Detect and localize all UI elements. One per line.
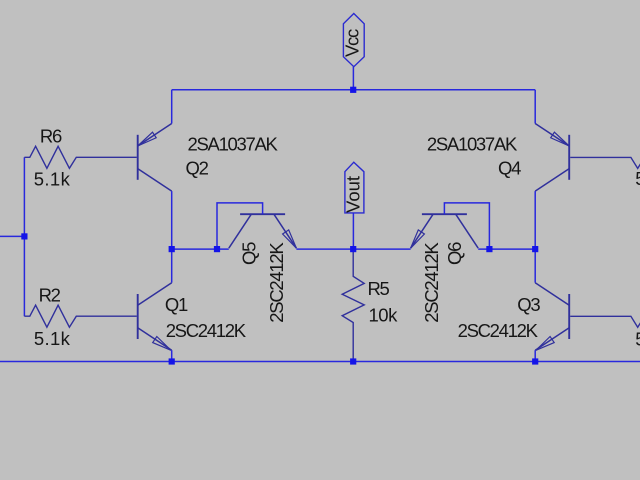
svg-text:R2: R2: [39, 284, 61, 305]
wire top bus: [172, 89, 536, 91]
svg-text:Q6: Q6: [444, 242, 465, 265]
power flag Vcc: [342, 14, 365, 67]
transistor Q5: [229, 214, 297, 323]
svg-text:Q5: Q5: [239, 242, 260, 265]
transistor Q4: [427, 124, 569, 192]
transistor Q2: [138, 124, 279, 192]
wire Q1 emitter to bottom rail: [171, 350, 173, 361]
wire Vout lead: [352, 213, 354, 249]
svg-text:2SC2412K: 2SC2412K: [458, 320, 539, 341]
svg-text:10k: 10k: [369, 305, 399, 326]
resistor R2: [24, 284, 136, 349]
transistor Q1: [138, 283, 247, 351]
svg-text:Q4: Q4: [498, 158, 521, 179]
wire Vcc lead: [352, 67, 354, 90]
svg-text:Q1: Q1: [165, 294, 188, 315]
label Vout: [343, 162, 364, 213]
junction Vout R5: [350, 246, 356, 252]
transistor Q6: [411, 214, 479, 323]
svg-text:2SC2412K: 2SC2412K: [421, 242, 442, 323]
junction Q6 base collector: [486, 246, 492, 252]
transistor Q3: [458, 283, 570, 351]
junction Q1 Q2 collectors: [169, 246, 175, 252]
wire Q2 emitter to bus: [171, 90, 173, 124]
junction Vcc bus: [350, 87, 356, 93]
wire middle rail left: [172, 248, 229, 250]
svg-text:2SA1037AK: 2SA1037AK: [188, 134, 279, 155]
resistor R5: [342, 249, 398, 361]
svg-text:Q3: Q3: [517, 294, 540, 315]
wire bottom rail: [0, 361, 640, 363]
wire middle rail right: [478, 248, 535, 250]
wire Q5 base loop: [217, 203, 263, 249]
junction left node: [21, 233, 27, 239]
resistor bottom right partial: [570, 316, 640, 349]
junction Q1 emitter rail: [169, 358, 175, 364]
resistor top right partial: [570, 157, 640, 189]
svg-text:Vcc: Vcc: [342, 29, 363, 57]
svg-text:2SC2412K: 2SC2412K: [266, 242, 287, 323]
junction R5 bottom rail: [350, 358, 356, 364]
svg-text:Vout: Vout: [343, 176, 364, 213]
svg-text:2SA1037AK: 2SA1037AK: [427, 134, 518, 155]
wire left stub: [0, 235, 24, 237]
junction Q3 emitter rail: [532, 358, 538, 364]
svg-text:5.1k: 5.1k: [34, 328, 71, 349]
svg-text:R5: R5: [368, 278, 390, 299]
svg-text:R6: R6: [40, 126, 62, 147]
junction Q3 Q4 collectors: [532, 246, 538, 252]
svg-text:5.1k: 5.1k: [34, 169, 71, 190]
svg-text:5.1k: 5.1k: [635, 168, 640, 189]
wire left node vertical: [23, 157, 25, 316]
wire left collector column: [171, 191, 173, 283]
svg-text:Q2: Q2: [186, 158, 209, 179]
svg-text:2SC2412K: 2SC2412K: [166, 320, 247, 341]
wire Q4 emitter to bus: [534, 90, 536, 124]
resistor R6: [24, 126, 136, 190]
wire Q6 base loop: [444, 203, 489, 249]
junction Q5 base collector: [214, 246, 220, 252]
wire Q3 emitter to bottom rail: [534, 350, 536, 361]
svg-text:5.1k: 5.1k: [635, 328, 640, 349]
wire middle rail center: [296, 248, 410, 250]
wire right collector column: [534, 191, 536, 283]
